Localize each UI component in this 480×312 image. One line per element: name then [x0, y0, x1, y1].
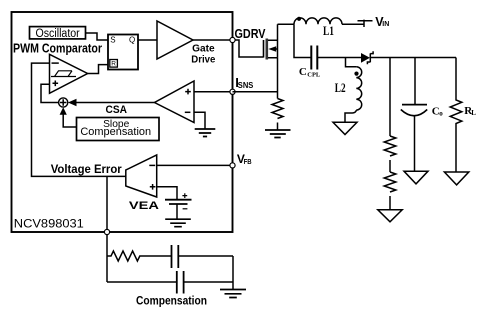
node COMP pin on box bottom: [104, 229, 109, 234]
wire compensation to ground: [232, 256, 234, 289]
resistor feedback R1: [384, 136, 396, 172]
wire slope compensation into summing junction: [60, 107, 77, 127]
svg-text:SNS: SNS: [238, 81, 254, 90]
wire ISNS to source node: [233, 58, 278, 99]
ground RL triangle: [444, 172, 468, 185]
svg-text:S: S: [110, 36, 115, 45]
svg-text:Gate: Gate: [192, 42, 215, 54]
latch U2 SR flip-flop: [108, 35, 138, 70]
pin Q: [129, 36, 135, 45]
svg-text:CPL: CPL: [307, 72, 321, 79]
ground compensation earth: [220, 290, 246, 298]
svg-text:PWM Comparator: PWM Comparator: [13, 41, 102, 56]
capacitor Co output: [401, 58, 427, 172]
wire VEA output down to compensation: [106, 176, 108, 282]
label ISNS: [235, 75, 254, 90]
label GDRV: [235, 26, 266, 41]
label L1: [323, 23, 334, 38]
ground Co triangle: [404, 171, 428, 184]
wire CSA output into summing junction: [68, 99, 155, 106]
label NCV898031: [14, 216, 84, 230]
svg-text:CSA: CSA: [106, 104, 128, 116]
op-amp U1 PWM comparator: [50, 54, 88, 93]
label Gate Drive: [191, 42, 215, 65]
terminal VIN: [358, 20, 373, 27]
svg-text:Oscillator: Oscillator: [36, 28, 80, 40]
label Oscillator: [36, 28, 80, 40]
node VFB pin: [230, 163, 235, 168]
label Co: [432, 105, 443, 117]
svg-text:L: L: [471, 109, 476, 117]
svg-text:VEA: VEA: [129, 200, 159, 212]
pin S: [110, 36, 115, 45]
polarity dot L2: [354, 72, 358, 76]
wire VEA output to PWM inverting input: [32, 63, 127, 176]
wire VEA non-inverting input to reference: [157, 187, 177, 200]
wire VFB pin to VEA inverting input: [157, 164, 233, 166]
svg-text:FB: FB: [244, 157, 252, 166]
hysteresis symbol: [51, 71, 76, 77]
label VEA: [129, 200, 159, 212]
pin R (boxed reset): [110, 60, 118, 68]
label Voltage Error: [51, 164, 123, 176]
label CSA: [106, 104, 128, 116]
ground reference earth: [165, 219, 191, 227]
svg-text:IN: IN: [382, 21, 389, 28]
polarity dot L1: [297, 17, 301, 21]
resistor sense RS: [272, 99, 283, 130]
op-amp CSA current sense amplifier: [155, 81, 195, 123]
inductor L2: [345, 58, 362, 122]
wire CSA plus input to ISNS pin: [194, 91, 233, 93]
slope compensation block: [77, 118, 160, 141]
node GDRV pin: [230, 37, 235, 42]
battery reference V1: [165, 193, 192, 219]
wire GDRV to MOSFET gate: [235, 40, 263, 57]
svg-text:NCV898031: NCV898031: [14, 216, 84, 230]
label Compensation: [136, 293, 207, 307]
IC boundary box NCV898031: [12, 12, 233, 232]
label CCPL: [299, 66, 321, 79]
svg-text:C: C: [299, 66, 307, 78]
wire CSA minus input to ground: [194, 112, 205, 128]
label VIN: [375, 15, 389, 29]
wire drain to input node: [278, 23, 295, 25]
wire gate drive output to GDRV pin: [193, 39, 233, 41]
label PWM Comparator: [13, 41, 102, 56]
svg-text:L1: L1: [323, 23, 334, 38]
wire latch Q to gate drive: [138, 39, 157, 41]
label VFB: [237, 152, 252, 166]
capacitor compensation CP parallel: [107, 271, 233, 294]
svg-text:o: o: [439, 110, 443, 118]
label Slope Compensation: [80, 118, 151, 138]
capacitor CCPL: [311, 46, 345, 70]
resistor RL load: [450, 58, 462, 172]
ground L2 triangle: [333, 122, 357, 134]
svg-text:GDRV: GDRV: [235, 26, 266, 41]
label L2: [335, 80, 346, 95]
svg-text:Compensation: Compensation: [80, 126, 151, 138]
buffer Gate Drive: [157, 21, 193, 59]
resistor feedback R2: [384, 172, 396, 210]
wire PWM output to latch R: [88, 65, 108, 74]
label RL: [464, 105, 476, 117]
wire oscillator to latch S: [86, 33, 108, 40]
wire input node down to coupling cap: [294, 24, 311, 57]
node summing junction: [59, 98, 68, 107]
transistor Q1 NMOS: [264, 24, 278, 59]
capacitor compensation CC series: [172, 245, 234, 268]
svg-text:R: R: [111, 61, 116, 68]
ground CSA earth: [195, 129, 216, 137]
resistor compensation RC: [107, 251, 171, 261]
wire output node to feedback divider: [389, 58, 391, 137]
ground sense earth: [265, 130, 291, 138]
diode D1 schottky: [346, 51, 457, 64]
svg-text:L2: L2: [335, 80, 346, 95]
node ISNS pin: [230, 89, 235, 94]
svg-text:Drive: Drive: [191, 54, 215, 66]
wire L1 to VIN terminal: [342, 23, 364, 25]
wire summing node to PWM non-inverting input: [41, 84, 59, 102]
svg-text:Voltage Error: Voltage Error: [51, 164, 123, 176]
op-amp VEA error amplifier: [126, 155, 157, 197]
ground divider triangle: [378, 210, 402, 222]
svg-text:Compensation: Compensation: [136, 293, 207, 307]
oscillator block: [30, 27, 86, 39]
inductor L1: [294, 18, 342, 24]
svg-text:Q: Q: [129, 36, 135, 45]
